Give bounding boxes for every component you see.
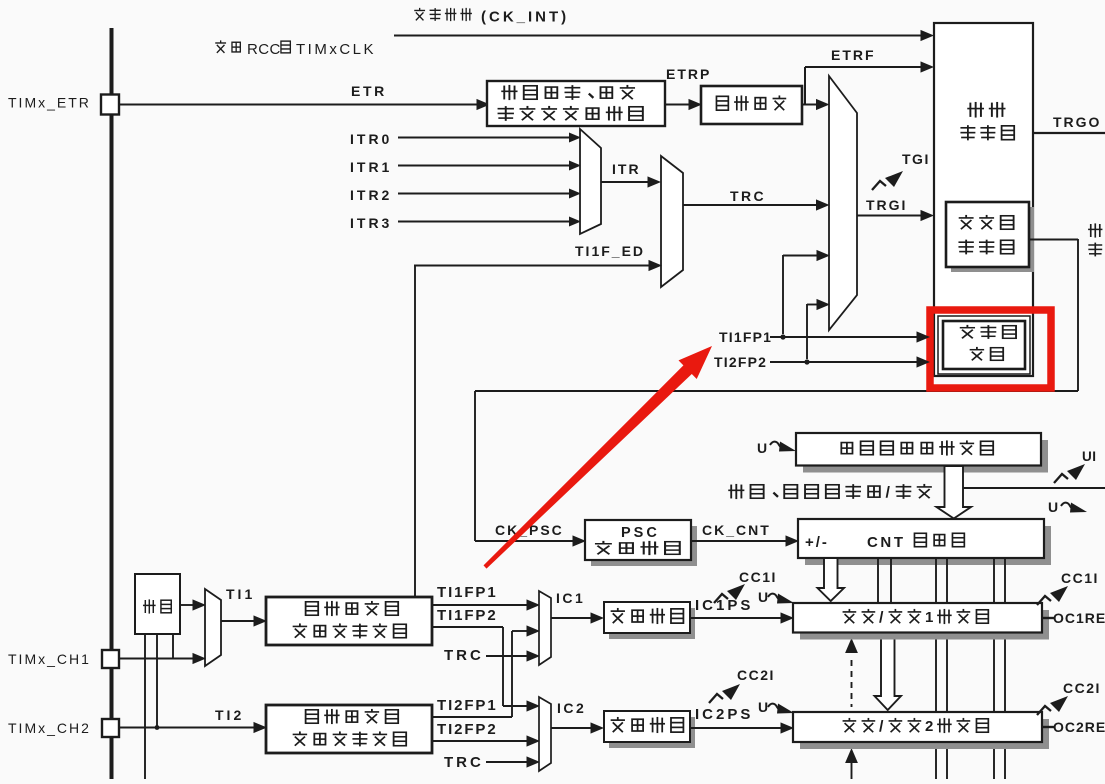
wire TI1F_ED — [414, 260, 662, 597]
svg-text:TIMx_CH1: TIMx_CH1 — [8, 651, 91, 667]
wire TRC to IC2mux — [486, 756, 540, 767]
arrow CNT to CCR1 (hollow) — [818, 558, 845, 601]
annotation red arrow — [484, 346, 713, 569]
symbol U event (CCR1) — [758, 589, 794, 605]
svg-text:CC1I: CC1I — [739, 569, 777, 585]
label TI1 — [226, 586, 255, 602]
box XOR 异或 — [135, 574, 180, 634]
mux IC1 select — [539, 591, 551, 665]
label TI1FP1 (encoder) — [719, 329, 772, 345]
wire IC1 — [551, 612, 604, 623]
svg-text:ETR: ETR — [351, 83, 387, 99]
arrow ARR to CNT (hollow) — [937, 466, 972, 519]
label TRC — [730, 188, 766, 204]
svg-text:TRGO: TRGO — [1053, 114, 1101, 130]
svg-text:TI1FP2: TI1FP2 — [437, 607, 498, 624]
pin TIMx_ETR — [101, 95, 119, 115]
label ETR — [351, 83, 387, 99]
label CC2I (left) — [737, 667, 775, 683]
interrupt flag CC1I left — [714, 584, 745, 603]
svg-text:OC2REF: OC2REF — [1053, 719, 1105, 735]
wire mux input TI1FP1 branch — [783, 250, 830, 334]
wire CH1 — [119, 653, 206, 664]
label CC1I (left) — [739, 569, 777, 585]
svg-text:TI2FP2: TI2FP2 — [437, 721, 498, 738]
svg-text:IC2PS: IC2PS — [695, 706, 753, 723]
wire IC2 — [551, 722, 604, 733]
wire ETRF to mux — [802, 99, 830, 110]
wire ITR1 — [398, 161, 581, 171]
box encoder interface 编码器接口 — [943, 321, 1025, 369]
svg-text:ETRP: ETRP — [666, 66, 711, 82]
label IC1PS — [695, 597, 753, 614]
svg-text:U: U — [1048, 499, 1058, 515]
mux IC2 select — [539, 697, 551, 771]
svg-text:TI1FP1: TI1FP1 — [719, 329, 772, 345]
interrupt flag TGI — [872, 171, 903, 190]
wire TI2FP2 — [432, 735, 540, 746]
box capture/compare register1 捕获/比较1寄存器 — [793, 603, 1049, 640]
wire OC1REF — [1042, 617, 1054, 619]
label TI1FP1 — [437, 584, 498, 601]
label TI2FP2 (encoder) — [714, 354, 767, 370]
svg-text:TI2FP1: TI2FP1 — [437, 697, 498, 714]
label IC2 — [557, 700, 586, 716]
wire slave reset path — [475, 239, 1078, 541]
label TIMx_CH1 — [8, 651, 91, 667]
svg-text:TIMx_ETR: TIMx_ETR — [8, 95, 91, 111]
svg-text:OC1REF: OC1REF — [1053, 610, 1105, 626]
symbol U event (CCR2) — [758, 699, 794, 715]
label TRC (IC1) — [444, 647, 484, 664]
label 停止、清除或向上/向下 — [728, 484, 932, 502]
svg-text:ITR1: ITR1 — [350, 159, 392, 175]
svg-text:UI: UI — [1082, 449, 1097, 464]
label TRGI — [866, 197, 907, 213]
wire TI2FP1 to IC1mux — [432, 625, 540, 717]
pin TIMx_CH1 — [102, 650, 119, 668]
pin TIMx_CH2 — [102, 719, 119, 737]
box input filter 输入滤波 — [701, 86, 802, 124]
wire TRGO — [1033, 132, 1105, 134]
svg-text:TRC: TRC — [444, 647, 484, 664]
mux ITR select — [580, 129, 601, 234]
label ITR2 — [350, 187, 392, 203]
label ITR — [612, 161, 641, 177]
label TI2FP2 — [437, 721, 498, 738]
wire ETRP — [665, 99, 702, 110]
svg-text:TIMx_CH2: TIMx_CH2 — [8, 720, 91, 736]
svg-text:U: U — [757, 440, 767, 456]
svg-text:ETRF: ETRF — [831, 47, 876, 63]
label CC1I (right) — [1061, 570, 1099, 586]
wire TRGI — [857, 210, 934, 221]
wire ETRF up-over — [805, 61, 934, 104]
symbol U event (right) — [1048, 499, 1087, 515]
svg-text:TIMxCLK: TIMxCLK — [296, 41, 376, 58]
box capture/compare register2 捕获/比较2寄存器 — [793, 712, 1049, 749]
mux trigger select — [829, 76, 857, 330]
label TGI — [902, 151, 930, 167]
svg-text:RCC: RCC — [247, 41, 281, 58]
highlight red rectangle — [930, 310, 1051, 388]
label internal clock 内部时钟 (CK_INT) — [414, 8, 569, 26]
label IC1 — [556, 590, 585, 606]
svg-text:PSC: PSC — [621, 525, 660, 541]
interrupt flag CC2I right — [1037, 696, 1068, 715]
label CK_PSC — [495, 522, 564, 538]
svg-text:CC2I: CC2I — [737, 667, 775, 683]
arrow capture into CCR2 — [845, 748, 858, 779]
box input filter & edge detector 2 输入滤波器和边沿检测器 — [266, 705, 432, 753]
wire mux input TI2FP2 branch — [807, 299, 830, 359]
label TRC (IC2) — [444, 754, 484, 771]
wire TI1FP1 — [432, 599, 540, 610]
label TIMx_ETR — [8, 95, 91, 111]
svg-text:/: / — [879, 719, 884, 736]
svg-text:ITR0: ITR0 — [350, 131, 392, 147]
svg-text:CK_CNT: CK_CNT — [702, 522, 771, 538]
label TRGO — [1053, 114, 1101, 130]
label IC2PS — [695, 706, 753, 723]
svg-text:/: / — [879, 610, 884, 627]
label TI2 — [215, 707, 244, 723]
svg-text:TI2: TI2 — [215, 707, 244, 723]
box input filter & edge detector 1 输入滤波器和边沿检测器 — [266, 597, 432, 645]
bus pair B — [936, 558, 947, 779]
label UI — [1082, 449, 1097, 464]
label OC2REF — [1053, 719, 1105, 735]
wire XOR out — [180, 599, 206, 610]
interrupt flag CC2I left — [709, 684, 740, 703]
svg-text:TI1FP1: TI1FP1 — [437, 584, 498, 601]
bus pair C — [994, 558, 1005, 779]
label OC1REF — [1053, 610, 1105, 626]
svg-text:CNT: CNT — [867, 534, 906, 551]
wire CK_PSC — [475, 535, 586, 546]
svg-text:TRGI: TRGI — [866, 197, 907, 213]
wire TRC — [683, 199, 830, 210]
box trigger controller 触发控制器 — [934, 23, 1033, 376]
label CC2I (right) — [1063, 680, 1101, 696]
interrupt flag UI — [1054, 464, 1085, 483]
svg-text:+/-: +/- — [805, 534, 829, 551]
label TIMx_CH2 — [8, 720, 91, 736]
svg-text:IC1PS: IC1PS — [695, 597, 753, 614]
mux TI1 select — [205, 589, 221, 666]
wire ITR3 — [398, 217, 581, 227]
label ITR1 — [350, 159, 392, 175]
mux TRC select — [661, 156, 683, 287]
svg-text:1: 1 — [925, 609, 933, 626]
svg-text:TRC: TRC — [444, 754, 484, 771]
label 来自RCC的TIMxCLK — [215, 40, 376, 58]
svg-text:IC1: IC1 — [556, 590, 585, 606]
arrow capture into CCR1 (dashed) — [845, 638, 858, 707]
interrupt flag CC1I right — [1037, 586, 1068, 605]
box polarity/edge-detect prescaler 极性选择、边沿检测和预分频器 — [487, 81, 665, 126]
box auto-reload register 自动重装载寄存器 — [796, 433, 1048, 473]
wire ITR0 — [398, 133, 581, 143]
wire TI1FP2 to IC2mux — [432, 627, 540, 712]
box slave mode controller 从模式控制器 — [946, 202, 1034, 272]
label ETRF — [831, 47, 876, 63]
svg-text:TRC: TRC — [730, 188, 766, 204]
svg-text:ITR2: ITR2 — [350, 187, 392, 203]
svg-text:IC2: IC2 — [557, 700, 586, 716]
label ITR0 — [350, 131, 392, 147]
svg-text:/: / — [886, 485, 891, 502]
svg-text:ITR3: ITR3 — [350, 215, 392, 231]
label ITR3 — [350, 215, 392, 231]
wire XOR taps — [145, 634, 173, 779]
wire IC1PS — [690, 612, 794, 623]
arrow CCR1 to CCR2 (hollow) — [875, 633, 902, 710]
wire update event right — [963, 487, 1105, 489]
svg-text:(CK_INT): (CK_INT) — [481, 9, 569, 26]
wire CK_CNT — [691, 535, 799, 546]
wire TIMx input rail — [110, 28, 114, 779]
svg-text:TI1F_ED: TI1F_ED — [575, 243, 645, 259]
wire IC2PS — [690, 722, 794, 733]
svg-text:CC1I: CC1I — [1061, 570, 1099, 586]
wire CK_INT — [394, 30, 934, 41]
bus pair A upper — [878, 558, 891, 602]
wire ETR — [119, 99, 490, 110]
wire TI2FP2 to encoder — [770, 356, 930, 367]
box encoder interface outer — [938, 316, 1030, 374]
wire TI2 — [119, 722, 267, 733]
wire TRC to IC1mux — [486, 650, 540, 661]
svg-text:U: U — [758, 699, 768, 715]
label ETRP — [666, 66, 711, 82]
label CK_CNT — [702, 522, 771, 538]
box PSC prescaler PSC预分频器 — [585, 520, 697, 566]
box CNT counter CNT计数器 — [798, 519, 1051, 565]
label TI2FP1 — [437, 697, 498, 714]
svg-text:2: 2 — [925, 718, 933, 735]
wire TI1FP1 to encoder — [770, 331, 930, 342]
svg-text:U: U — [758, 589, 768, 605]
wire OC2REF — [1042, 726, 1054, 728]
label 复位方向 (clipped) — [1088, 223, 1102, 256]
wire TI1 — [221, 615, 267, 626]
box IC2 prescaler 预分频器 — [604, 711, 695, 748]
svg-text:TI1: TI1 — [226, 586, 255, 602]
svg-text:TI2FP2: TI2FP2 — [714, 354, 767, 370]
wire ITR — [601, 176, 661, 187]
label TI1FP2 — [437, 607, 498, 624]
label TI1F_ED — [575, 243, 645, 259]
symbol U event (ARR) — [757, 440, 796, 456]
svg-text:TGI: TGI — [902, 151, 930, 167]
wire ITR2 — [398, 189, 581, 199]
box IC1 prescaler 预分频器 — [604, 602, 695, 639]
svg-text:CC2I: CC2I — [1063, 680, 1101, 696]
svg-text:ITR: ITR — [612, 161, 641, 177]
